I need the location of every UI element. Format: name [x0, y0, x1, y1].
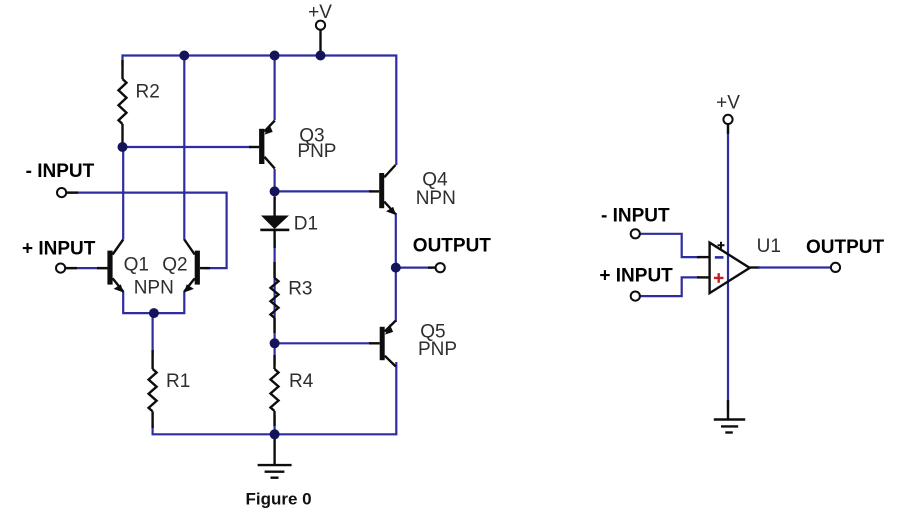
svg-text:+ INPUT: + INPUT	[22, 238, 96, 259]
svg-text:NPN: NPN	[416, 188, 456, 209]
svg-text:Q1: Q1	[124, 255, 149, 276]
svg-text:NPN: NPN	[134, 278, 174, 299]
svg-text:+V: +V	[716, 93, 740, 114]
svg-text:PNP: PNP	[297, 141, 336, 162]
svg-text:Figure 0: Figure 0	[246, 490, 312, 509]
svg-text:R4: R4	[289, 371, 314, 392]
svg-text:U1: U1	[757, 236, 781, 257]
svg-text:- INPUT: - INPUT	[26, 161, 95, 182]
svg-text:R1: R1	[166, 371, 190, 392]
svg-text:OUTPUT: OUTPUT	[413, 236, 492, 257]
svg-text:OUTPUT: OUTPUT	[806, 237, 885, 258]
svg-text:- INPUT: - INPUT	[601, 206, 670, 227]
svg-text:+ INPUT: + INPUT	[599, 266, 673, 287]
svg-text:Q2: Q2	[162, 255, 187, 276]
svg-text:PNP: PNP	[418, 339, 457, 360]
svg-text:R2: R2	[136, 82, 160, 103]
svg-text:R3: R3	[288, 278, 312, 299]
svg-text:D1: D1	[294, 214, 318, 235]
